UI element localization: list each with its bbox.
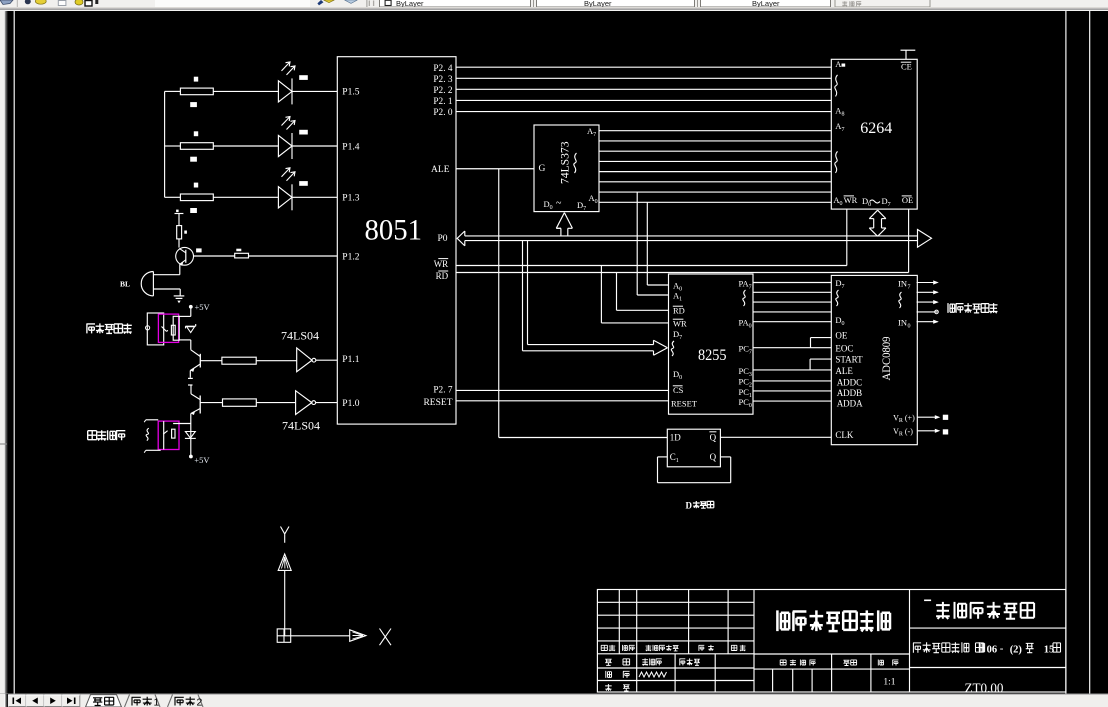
squiggle lower (6264) xyxy=(835,151,838,173)
resistor R6 xyxy=(222,357,256,364)
svg-text:74LS373: 74LS373 xyxy=(558,141,572,184)
wire: bus to resistor R2 xyxy=(165,145,181,147)
wire RD net xyxy=(456,209,909,310)
wire WR net xyxy=(456,209,847,323)
svg-text:(2): (2) xyxy=(1010,644,1023,655)
pin PA0 (8255) xyxy=(739,318,752,330)
checker name xyxy=(679,658,700,665)
pin P1.2 xyxy=(342,253,359,263)
pin D0 (8255) xyxy=(673,369,682,381)
pin PC0 (8255) xyxy=(739,397,752,409)
svg-text:P1.2: P1.2 xyxy=(342,253,359,263)
solenoid valve component xyxy=(146,313,180,345)
pin P2.4 xyxy=(433,64,452,74)
wire: LED to 8051 P1.3 xyxy=(292,196,337,198)
latch 74LS373 U2 xyxy=(534,125,599,212)
svg-text:+5V: +5V xyxy=(194,455,210,465)
bus P0 (hollow two-headed arrow) xyxy=(457,230,931,248)
squiggle upper (6264) xyxy=(835,75,838,97)
bus A0-A7: 373 to 6264 xyxy=(599,131,831,203)
bus branch: P0 down into 8255 D0-D7 xyxy=(523,241,668,356)
svg-text:START: START xyxy=(835,355,863,365)
pin IN0 (ADC) xyxy=(898,318,911,330)
pin WR (8051) xyxy=(434,259,449,270)
motor component xyxy=(144,420,179,453)
svg-text:P2. 7: P2. 7 xyxy=(433,386,452,396)
dff D flip-flop U7 xyxy=(667,429,720,467)
svg-text:1: 1 xyxy=(154,696,160,707)
student number xyxy=(639,672,667,677)
pin START (ADC) xyxy=(835,355,863,365)
pin P2.7 xyxy=(433,386,452,396)
pins D0~D7 (373) xyxy=(544,198,587,212)
pin P2.3 xyxy=(433,75,452,85)
svg-text:RD: RD xyxy=(436,271,449,281)
mcu 8051 U1 xyxy=(337,57,456,424)
pin P1.3 xyxy=(342,194,359,204)
pin P2.2 xyxy=(433,86,452,96)
ground (buzzer) xyxy=(174,296,185,303)
pin G xyxy=(539,164,546,174)
wire: dff Qbar to ADC CLK xyxy=(720,436,831,438)
bus branch: P0 up into 373 D0-D7 xyxy=(556,213,572,236)
pin A12 (6264) xyxy=(835,59,845,69)
pin CLK (ADC) xyxy=(835,430,854,440)
wire: LED to 8051 P1.4 xyxy=(292,145,337,147)
svg-text:ByLayer: ByLayer xyxy=(396,0,424,8)
pins D0~D7 (6264) xyxy=(862,196,891,208)
header chu-shu xyxy=(623,645,635,651)
wire: valve bottom to Q2 collector xyxy=(179,340,191,350)
svg-text:BL: BL xyxy=(120,280,130,289)
svg-text:WR: WR xyxy=(673,319,687,329)
pin A0 (373) xyxy=(589,193,598,205)
wire RESET to 8255 RESET xyxy=(456,400,669,402)
inverter U3A xyxy=(297,348,316,372)
pin RESET xyxy=(423,398,452,408)
svg-text:P1.3: P1.3 xyxy=(342,194,359,204)
pin CS (8255) xyxy=(673,385,684,395)
wire: R1 to LED xyxy=(213,90,278,92)
wire PC3 to ALE and START xyxy=(753,359,831,370)
svg-text:1D: 1D xyxy=(670,432,682,442)
svg-text:2: 2 xyxy=(197,696,203,707)
analog input arrows IN7-IN0 xyxy=(917,280,939,323)
label gun-tong-dian-ji (drum motor) xyxy=(88,430,126,440)
wire: Q1 base to R5 xyxy=(194,255,235,257)
label cai-ji-su-du-xin-hao (speed signal) xyxy=(948,303,998,313)
toolbar strip (top chrome) xyxy=(0,0,1108,11)
svg-text:P2. 4: P2. 4 xyxy=(433,64,452,74)
Vref- arrow to terminal xyxy=(917,429,948,435)
led D2 xyxy=(278,117,307,160)
svg-text:RESET: RESET xyxy=(671,399,698,409)
wire A1 to 8255 xyxy=(637,192,668,295)
wire: LED to 8051 P1.5 xyxy=(292,90,337,92)
pin OE (6264) xyxy=(902,195,914,205)
header zhong-liang (weight) xyxy=(843,660,856,666)
wire: Q2 base to R6 xyxy=(200,360,222,362)
pin ADDC (ADC) xyxy=(837,377,863,387)
svg-text:8051: 8051 xyxy=(365,214,423,247)
svg-text:OE: OE xyxy=(902,195,913,205)
CE tie-high symbol xyxy=(901,50,916,59)
left strip over tab bar xyxy=(0,694,8,707)
svg-text:1:1: 1:1 xyxy=(883,677,895,687)
overbar tick xyxy=(924,599,931,601)
wire: R4 to Q1 xyxy=(178,239,180,248)
pin D7 (8255) xyxy=(673,329,682,341)
bus branch: 6264 D0-D7 to P0 (double arrow) xyxy=(869,210,886,236)
header qian-zi xyxy=(699,645,714,651)
svg-text:WR: WR xyxy=(844,195,858,205)
dept line ying-yong-ji-shu-xue-yuan ji-zi 06-(2) ban 15 hao xyxy=(913,642,1061,655)
pin P1.5 xyxy=(342,88,359,98)
header geng-gai-wen-jian-ming xyxy=(646,645,679,651)
pin PC3 (8255) xyxy=(739,366,752,378)
transistor Q1 (buzzer driver) xyxy=(176,247,202,265)
tab bar (bottom chrome) xyxy=(0,694,1108,707)
svg-text:P1.4: P1.4 xyxy=(342,142,359,152)
pin ADDB (ADC) xyxy=(837,388,863,398)
svg-text:ALE: ALE xyxy=(835,366,853,376)
pin P2.0 xyxy=(433,108,452,118)
squiggle (373) xyxy=(574,153,577,173)
wire: R7 to inverter U3B xyxy=(256,402,295,404)
pin A1 (8255) xyxy=(673,291,682,303)
pin Vr- (ADC) xyxy=(893,427,913,438)
label dian-ci-huan-xiang-fa (solenoid valve) xyxy=(86,323,131,333)
svg-text:P2. 3: P2. 3 xyxy=(433,75,452,85)
frame left border line xyxy=(13,11,15,694)
svg-text:8255: 8255 xyxy=(698,347,727,364)
svg-text:Q: Q xyxy=(710,452,717,462)
drawing number ZT0.00 xyxy=(965,681,1004,696)
svg-text:ByLayer: ByLayer xyxy=(584,0,612,8)
svg-text:A: A xyxy=(835,59,842,69)
header bi-li (scale) xyxy=(878,660,898,666)
svg-text:RESET: RESET xyxy=(423,398,452,408)
wire: motor top to emitter line xyxy=(173,423,191,425)
svg-text:P1.0: P1.0 xyxy=(342,399,359,409)
row shen-he (review) xyxy=(605,684,630,691)
terminal bar (valve emitter) xyxy=(188,377,193,379)
pin ALE xyxy=(431,165,450,175)
pin D0 (ADC) xyxy=(835,315,844,327)
terminal bar (motor collector) xyxy=(188,384,193,386)
wire: terminal to Q3 collector xyxy=(190,385,192,394)
buzzer BL xyxy=(120,272,153,296)
pin ALE (ADC) xyxy=(835,366,853,376)
title duan-dai-jian-ce-yuan-li-tu (belt-break detection schematic) xyxy=(777,610,890,631)
wire: Q2 emitter to terminal xyxy=(189,371,191,378)
pin ADDA (ADC) xyxy=(837,398,863,408)
pins A0 WR (6264) xyxy=(833,195,857,207)
resistor R7 xyxy=(223,399,257,406)
svg-text:OE: OE xyxy=(835,330,847,340)
row she-ji (design) xyxy=(605,659,630,666)
adc ADC0809 U6 xyxy=(831,275,917,444)
svg-text:7: 7 xyxy=(908,284,911,290)
pin PC1 (8255) xyxy=(739,387,752,399)
wire: Q3 emitter down to +5V xyxy=(190,414,192,457)
label 74LS04 (lower) xyxy=(282,418,320,432)
wire PC2 to ADDC xyxy=(753,380,831,382)
pin RD (8051) xyxy=(436,271,449,281)
svg-text:74LS04: 74LS04 xyxy=(281,329,319,343)
svg-text:ByLayer: ByLayer xyxy=(752,0,780,8)
label D chu-fa-qi (D flip-flop) xyxy=(686,500,714,510)
transistor Q3 (motor driver) xyxy=(191,394,200,415)
svg-text:P1.5: P1.5 xyxy=(342,88,359,98)
svg-text:+5V: +5V xyxy=(195,302,211,312)
+5V terminal (valve) xyxy=(189,302,211,312)
svg-text:ADC0809: ADC0809 xyxy=(881,336,893,380)
diode D5 (flyback) xyxy=(185,432,196,439)
pin P1.1 xyxy=(342,355,359,365)
pin IN7 (ADC) xyxy=(898,279,911,291)
wire: U3A out to 8051 P1.1 xyxy=(316,359,338,361)
wire ALE branch down to D flip-flop xyxy=(499,169,668,438)
led D1 xyxy=(278,62,307,105)
pin D7 (ADC) xyxy=(835,278,844,290)
header biao-ji (mark) xyxy=(601,645,615,651)
wire: R3 to LED xyxy=(213,196,278,198)
svg-text:0: 0 xyxy=(908,323,911,329)
wire: R6 to inverter U3A xyxy=(256,360,297,362)
svg-text:ALE: ALE xyxy=(431,165,450,175)
row xue-hao (student no) xyxy=(606,671,630,678)
pin RESET (8255) xyxy=(671,399,698,409)
transistor Q2 (valve driver) xyxy=(190,350,200,372)
header tu-yang-biao-ji xyxy=(780,660,815,666)
svg-text:74LS04: 74LS04 xyxy=(282,418,320,432)
zener diode D4 xyxy=(186,324,196,333)
svg-text:ADDA: ADDA xyxy=(837,398,863,408)
svg-text:RD: RD xyxy=(673,306,685,316)
svg-text:D: D xyxy=(686,500,693,510)
sram 6264 U4 xyxy=(831,59,917,209)
wire: buzzer to ground xyxy=(153,289,180,296)
wire: dff Q feedback to C1 xyxy=(658,457,731,483)
label 74LS04 (upper) xyxy=(281,329,319,343)
bus PA7-PA0 to ADC D7-D0 xyxy=(753,283,831,322)
svg-text:EOC: EOC xyxy=(835,343,853,353)
pin A0 (8255) xyxy=(673,281,682,293)
wire P2.7 to 8255 CS xyxy=(456,389,669,391)
pin PA7 (8255) xyxy=(739,279,752,291)
pin PC7 (8255) xyxy=(739,344,752,356)
pin PC2 (8255) xyxy=(739,377,752,389)
squiggle left (ADC) xyxy=(836,290,839,306)
svg-text:P0: P0 xyxy=(437,234,447,244)
pin EOC (ADC) xyxy=(835,343,853,353)
wire: valve top to +5V xyxy=(179,308,191,317)
svg-text:P2. 0: P2. 0 xyxy=(433,108,452,118)
wire: Q1 emitter down xyxy=(153,265,179,275)
wire: Q3 base to R7 xyxy=(200,402,222,404)
squiggle right (ADC) xyxy=(899,292,902,308)
pin WR (8255) xyxy=(673,319,687,329)
pin RD (8255) xyxy=(673,306,685,316)
svg-text:ADDB: ADDB xyxy=(837,388,863,398)
ppi 8255 U5 xyxy=(669,274,754,414)
inverter U3B xyxy=(296,391,316,415)
squiggle right (8255) xyxy=(743,290,746,306)
wire ALE: 8051 to 373 G xyxy=(456,168,534,170)
wire: LED common bus xyxy=(164,91,166,197)
svg-text:6264: 6264 xyxy=(860,120,892,137)
svg-text:P1.1: P1.1 xyxy=(342,355,359,365)
pin P0 xyxy=(437,234,447,244)
school zhong-guo-kuang-ye-da-xue (China Univ of Mining and Tech) xyxy=(936,602,1034,619)
svg-text:CLK: CLK xyxy=(835,430,854,440)
resistor R5 xyxy=(235,249,249,258)
svg-text:WR: WR xyxy=(434,259,449,269)
left docked toolbar edge (left chrome) xyxy=(0,11,8,694)
wire PC1 to ADDB xyxy=(753,390,831,392)
header ri-qi xyxy=(731,645,745,651)
svg-text:Q: Q xyxy=(710,432,717,442)
scale value 1:1 xyxy=(883,677,895,687)
frame right inner border line xyxy=(1065,11,1067,694)
ucs icon xyxy=(277,527,391,646)
svg-text:IN: IN xyxy=(898,279,907,289)
pin A7 (6264) xyxy=(835,121,844,133)
wire: R2 to LED xyxy=(213,145,278,147)
+5V stub for buzzer resistor xyxy=(175,210,184,226)
pin A7 (373) xyxy=(587,126,596,138)
designer name xyxy=(642,658,662,665)
svg-text:G: G xyxy=(539,164,546,174)
wire: U3B out to 8051 P1.0 xyxy=(316,402,338,404)
wire: R5 to 8051 P1.2 xyxy=(249,255,338,257)
squiggle left (8255) xyxy=(671,341,674,356)
Vref+ arrow to terminal xyxy=(917,415,948,420)
svg-text:P2. 1: P2. 1 xyxy=(433,97,452,107)
pin A8 (6264) xyxy=(835,106,844,118)
wire PC7 to EOC and OE xyxy=(753,338,831,348)
svg-text:CE: CE xyxy=(901,61,912,71)
wire: bus to resistor R1 xyxy=(165,90,181,92)
wire PC0 to ADDA xyxy=(753,400,831,402)
bus P2.0-P2.4 to 6264 xyxy=(456,67,831,111)
svg-text:-: - xyxy=(1000,642,1004,654)
led D3 xyxy=(278,168,307,211)
svg-text:~: ~ xyxy=(556,198,562,209)
pin P2.1 xyxy=(433,97,452,107)
svg-text:P2. 2: P2. 2 xyxy=(433,86,452,96)
wire A0 to 8255 xyxy=(647,202,668,285)
pin CE (6264) xyxy=(901,61,912,71)
+5V terminal (motor) xyxy=(189,455,210,466)
resistor R2 xyxy=(180,131,213,161)
resistor R1 xyxy=(180,77,213,107)
frame right outer border line xyxy=(1089,11,1091,694)
pin P1.4 xyxy=(342,142,359,152)
pin Vr+ (ADC) xyxy=(893,413,915,424)
pin P1.0 xyxy=(342,399,359,409)
pin OE (ADC) xyxy=(835,330,847,340)
svg-text:ADDC: ADDC xyxy=(837,377,863,387)
svg-text:06: 06 xyxy=(987,644,998,655)
resistor R3 xyxy=(180,183,213,213)
svg-text:CS: CS xyxy=(673,385,684,395)
resistor R4 (vertical) xyxy=(177,226,187,239)
title block grid xyxy=(597,590,1066,693)
svg-text:IN: IN xyxy=(898,318,907,328)
wire: bus to resistor R3 xyxy=(165,196,181,198)
